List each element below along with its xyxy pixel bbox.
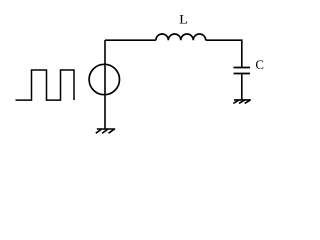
- inductor L: [156, 34, 206, 40]
- label L: [180, 15, 187, 24]
- wire top horizontal left: [105, 39, 156, 41]
- wire top horizontal right and corner down: [206, 40, 242, 66]
- wire capacitor to ground: [241, 74, 243, 99]
- ground (source): [96, 129, 115, 133]
- capacitor C bottom plate: [234, 73, 251, 75]
- wire vertical through source: [104, 40, 106, 129]
- square wave symbol (pulse source waveform): [16, 70, 75, 100]
- label C: [256, 60, 263, 69]
- capacitor C top plate: [234, 67, 251, 69]
- source V1 circle: [89, 64, 119, 94]
- ground (capacitor): [233, 100, 250, 104]
